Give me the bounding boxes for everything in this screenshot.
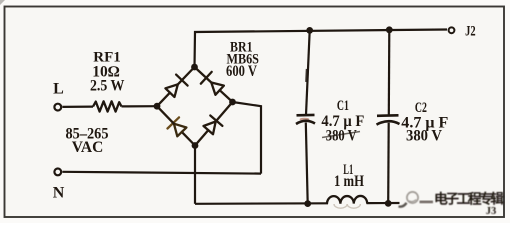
- capacitor C1: [297, 114, 315, 117]
- wire resistor to bridge left node: [122, 105, 158, 107]
- capacitor C1 polarity tint: [300, 118, 310, 121]
- svg-text:600 V: 600 V: [226, 63, 258, 80]
- wire C1 upper: [306, 31, 310, 115]
- diode D2 top-right: [220, 90, 233, 102]
- node C1 top: [306, 27, 313, 34]
- svg-text:VAC: VAC: [72, 139, 104, 156]
- wire C2 upper: [388, 30, 391, 115]
- watermark dash: [420, 201, 434, 204]
- wire C1 lower: [306, 123, 308, 204]
- node C1 bottom: [304, 200, 311, 207]
- wire C2 lower: [387, 123, 390, 204]
- diode D4 bottom-right: [195, 130, 208, 145]
- watermark logo swirl: [399, 192, 419, 207]
- terminal L: [54, 104, 61, 111]
- terminal J2: [449, 27, 455, 33]
- diode D1 top-left: [157, 93, 170, 107]
- wire L to resistor: [62, 105, 93, 108]
- resistor RF1: [93, 101, 122, 111]
- diode D3 bottom-left: [182, 132, 195, 146]
- wire C1 ink blob artifact: [305, 69, 309, 82]
- node left: [154, 103, 161, 110]
- wire bridge top to rail: [195, 30, 448, 68]
- wire bottom rail right of L1: [367, 202, 400, 204]
- bridge BR1: [157, 67, 233, 146]
- node C2 bottom: [385, 200, 392, 207]
- svg-text:电子工程专辑: 电子工程专辑: [434, 191, 504, 207]
- node bottom: [192, 142, 199, 149]
- terminal N: [54, 169, 61, 176]
- inductor L1: [327, 196, 367, 204]
- node C2 top: [386, 26, 393, 33]
- svg-text:C1: C1: [337, 98, 349, 114]
- node right: [229, 99, 236, 106]
- svg-text:380 V: 380 V: [406, 128, 443, 145]
- wire N rail: [62, 172, 261, 174]
- scan artifact strike through C1 380V: [322, 132, 360, 138]
- node top: [191, 64, 198, 71]
- svg-text:380 V: 380 V: [326, 128, 358, 145]
- inductor L1 ghost loops: [334, 204, 360, 208]
- svg-text:1 mH: 1 mH: [334, 173, 364, 190]
- wire N rail riser to bridge right node: [233, 102, 262, 174]
- svg-text:2.5 W: 2.5 W: [90, 78, 125, 95]
- svg-text:L: L: [53, 81, 64, 98]
- wire bridge bottom drop: [194, 146, 196, 204]
- svg-text:N: N: [53, 185, 65, 202]
- svg-text:J3: J3: [486, 206, 497, 217]
- scan corner smudge: [0, 0, 5, 5]
- wire bottom rail left of L1: [195, 202, 328, 205]
- svg-text:J2: J2: [465, 23, 476, 39]
- capacitor C2: [377, 114, 399, 117]
